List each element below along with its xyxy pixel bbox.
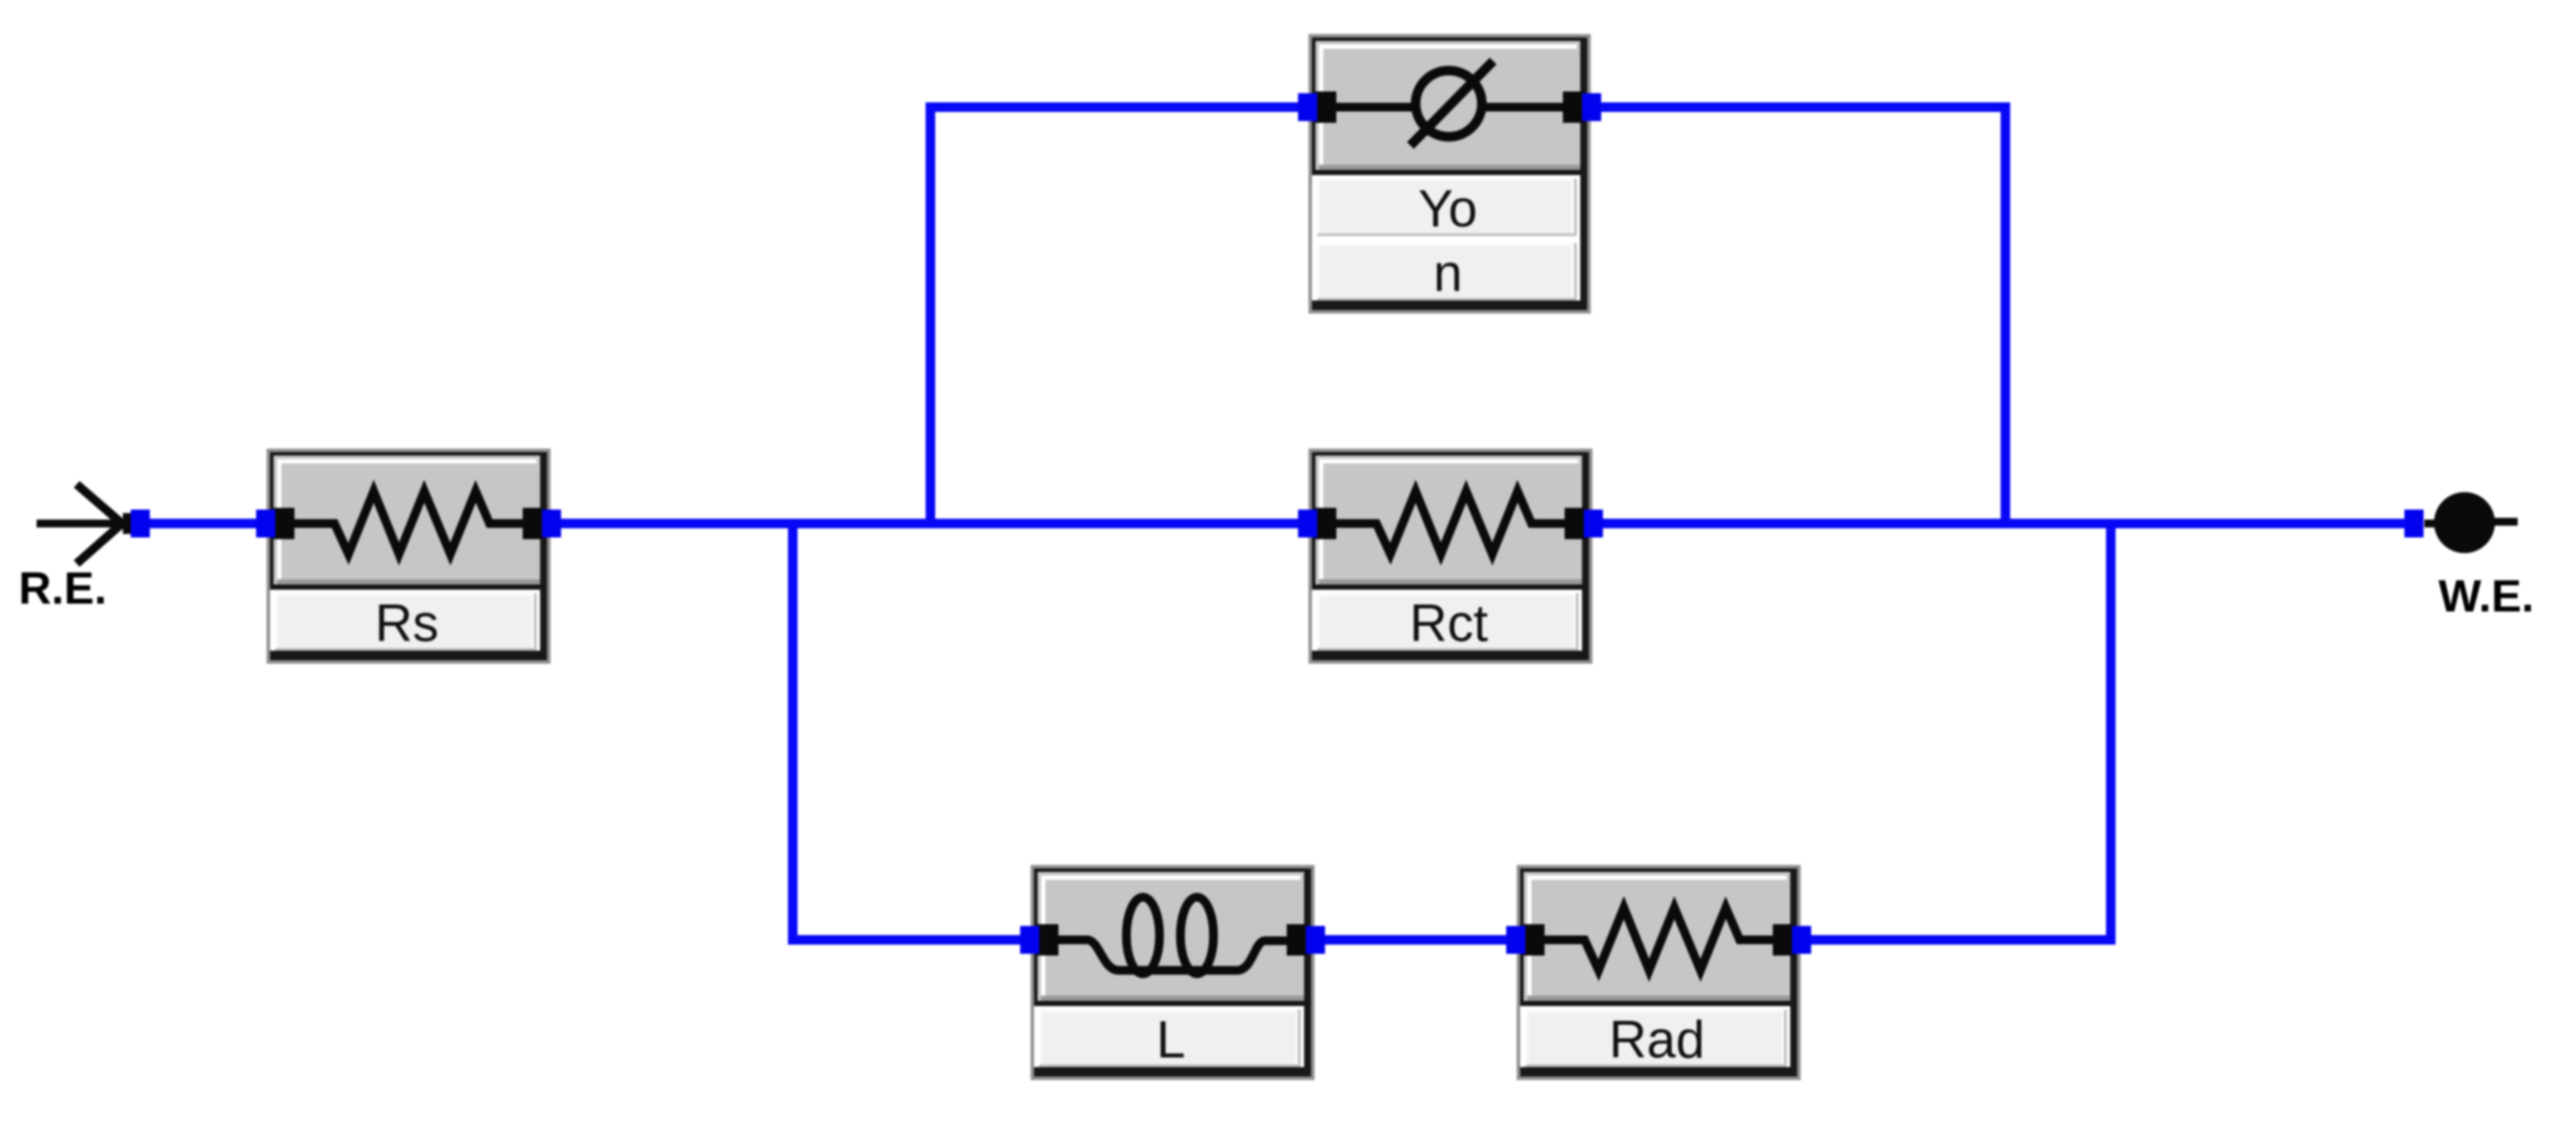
CPE Q (constant phase element) block frame <box>1308 34 1591 314</box>
terminal W.E. dot <box>2424 492 2518 553</box>
resistor Rad left pin tab <box>1524 924 1545 956</box>
CPE Q (constant phase element) value label "Yo" <box>1317 179 1577 238</box>
resistor Rct right pin tab <box>1565 508 1585 539</box>
CPE Q circle-slash symbol <box>1317 61 1582 145</box>
svg-text:L: L <box>1156 1010 1185 1069</box>
wire main horizontal R.E. to Rs <box>140 519 272 529</box>
inductor L left pin tab <box>1038 924 1058 956</box>
svg-text:n: n <box>1433 244 1462 302</box>
node at inductor L left pin <box>1020 926 1039 954</box>
resistor Rad value label "Rad" <box>1525 1010 1787 1069</box>
resistor Rad right pin tab <box>1773 924 1794 956</box>
node at resistor Rct left pin <box>1298 510 1317 537</box>
resistor Rs value label "Rs" <box>275 593 537 652</box>
resistor Rad block frame <box>1517 865 1801 1080</box>
svg-text:Rad: Rad <box>1609 1010 1705 1069</box>
resistor Rs resistor zigzag symbol <box>275 491 542 554</box>
node at resistor Rad right pin <box>1792 926 1811 954</box>
wire top branch: up from main line and across to CPE <box>930 107 1315 523</box>
svg-text:Rs: Rs <box>375 594 438 652</box>
inductor L inductor coil symbol <box>1038 897 1307 974</box>
inductor L right pin tab <box>1287 924 1308 956</box>
node at resistor Rad left pin <box>1506 926 1525 954</box>
CPE Q (constant phase element) value label "n" <box>1317 243 1577 302</box>
svg-text:W.E.: W.E. <box>2438 571 2534 622</box>
wire bottom branch L to Rad <box>1307 935 1525 945</box>
svg-text:Rct: Rct <box>1410 594 1488 652</box>
resistor Rs block frame <box>267 449 551 664</box>
inductor L value label "L" <box>1039 1010 1301 1069</box>
resistor Rs right pin tab <box>523 508 544 539</box>
wire main horizontal Rs to Rct <box>545 519 1315 529</box>
node at CPE Q right pin <box>1582 93 1601 121</box>
wire main horizontal Rct to W.E. <box>1585 519 2415 529</box>
node at resistor Rct right pin <box>1584 510 1603 537</box>
resistor Rad resistor zigzag symbol <box>1525 908 1792 970</box>
node at CPE Q left pin <box>1298 93 1317 121</box>
resistor Rct block frame <box>1308 449 1592 664</box>
svg-text:R.E.: R.E. <box>18 564 106 614</box>
wire top branch: from CPE across and down to main line <box>1584 107 2005 523</box>
resistor Rs left pin tab <box>274 508 294 539</box>
node at resistor Rs left pin <box>256 510 275 537</box>
terminal R.E. arrow <box>37 484 132 564</box>
svg-text:Yo: Yo <box>1418 179 1477 238</box>
resistor Rct value label "Rct" <box>1317 593 1579 652</box>
inductor L block frame <box>1031 865 1315 1080</box>
resistor Rct left pin tab <box>1315 508 1336 539</box>
node at R.E. terminal <box>131 510 150 537</box>
node at W.E. terminal <box>2404 510 2424 537</box>
CPE Q right pin tab <box>1563 91 1584 123</box>
CPE Q left pin tab <box>1315 91 1336 123</box>
wire bottom branch: from Rad across and up to main line <box>1793 523 2111 940</box>
resistor Rct resistor zigzag symbol <box>1317 491 1584 554</box>
node at resistor Rs right pin <box>542 510 561 537</box>
node at inductor L right pin <box>1306 926 1325 954</box>
wire bottom branch: down from main line and across to L <box>793 523 1038 940</box>
